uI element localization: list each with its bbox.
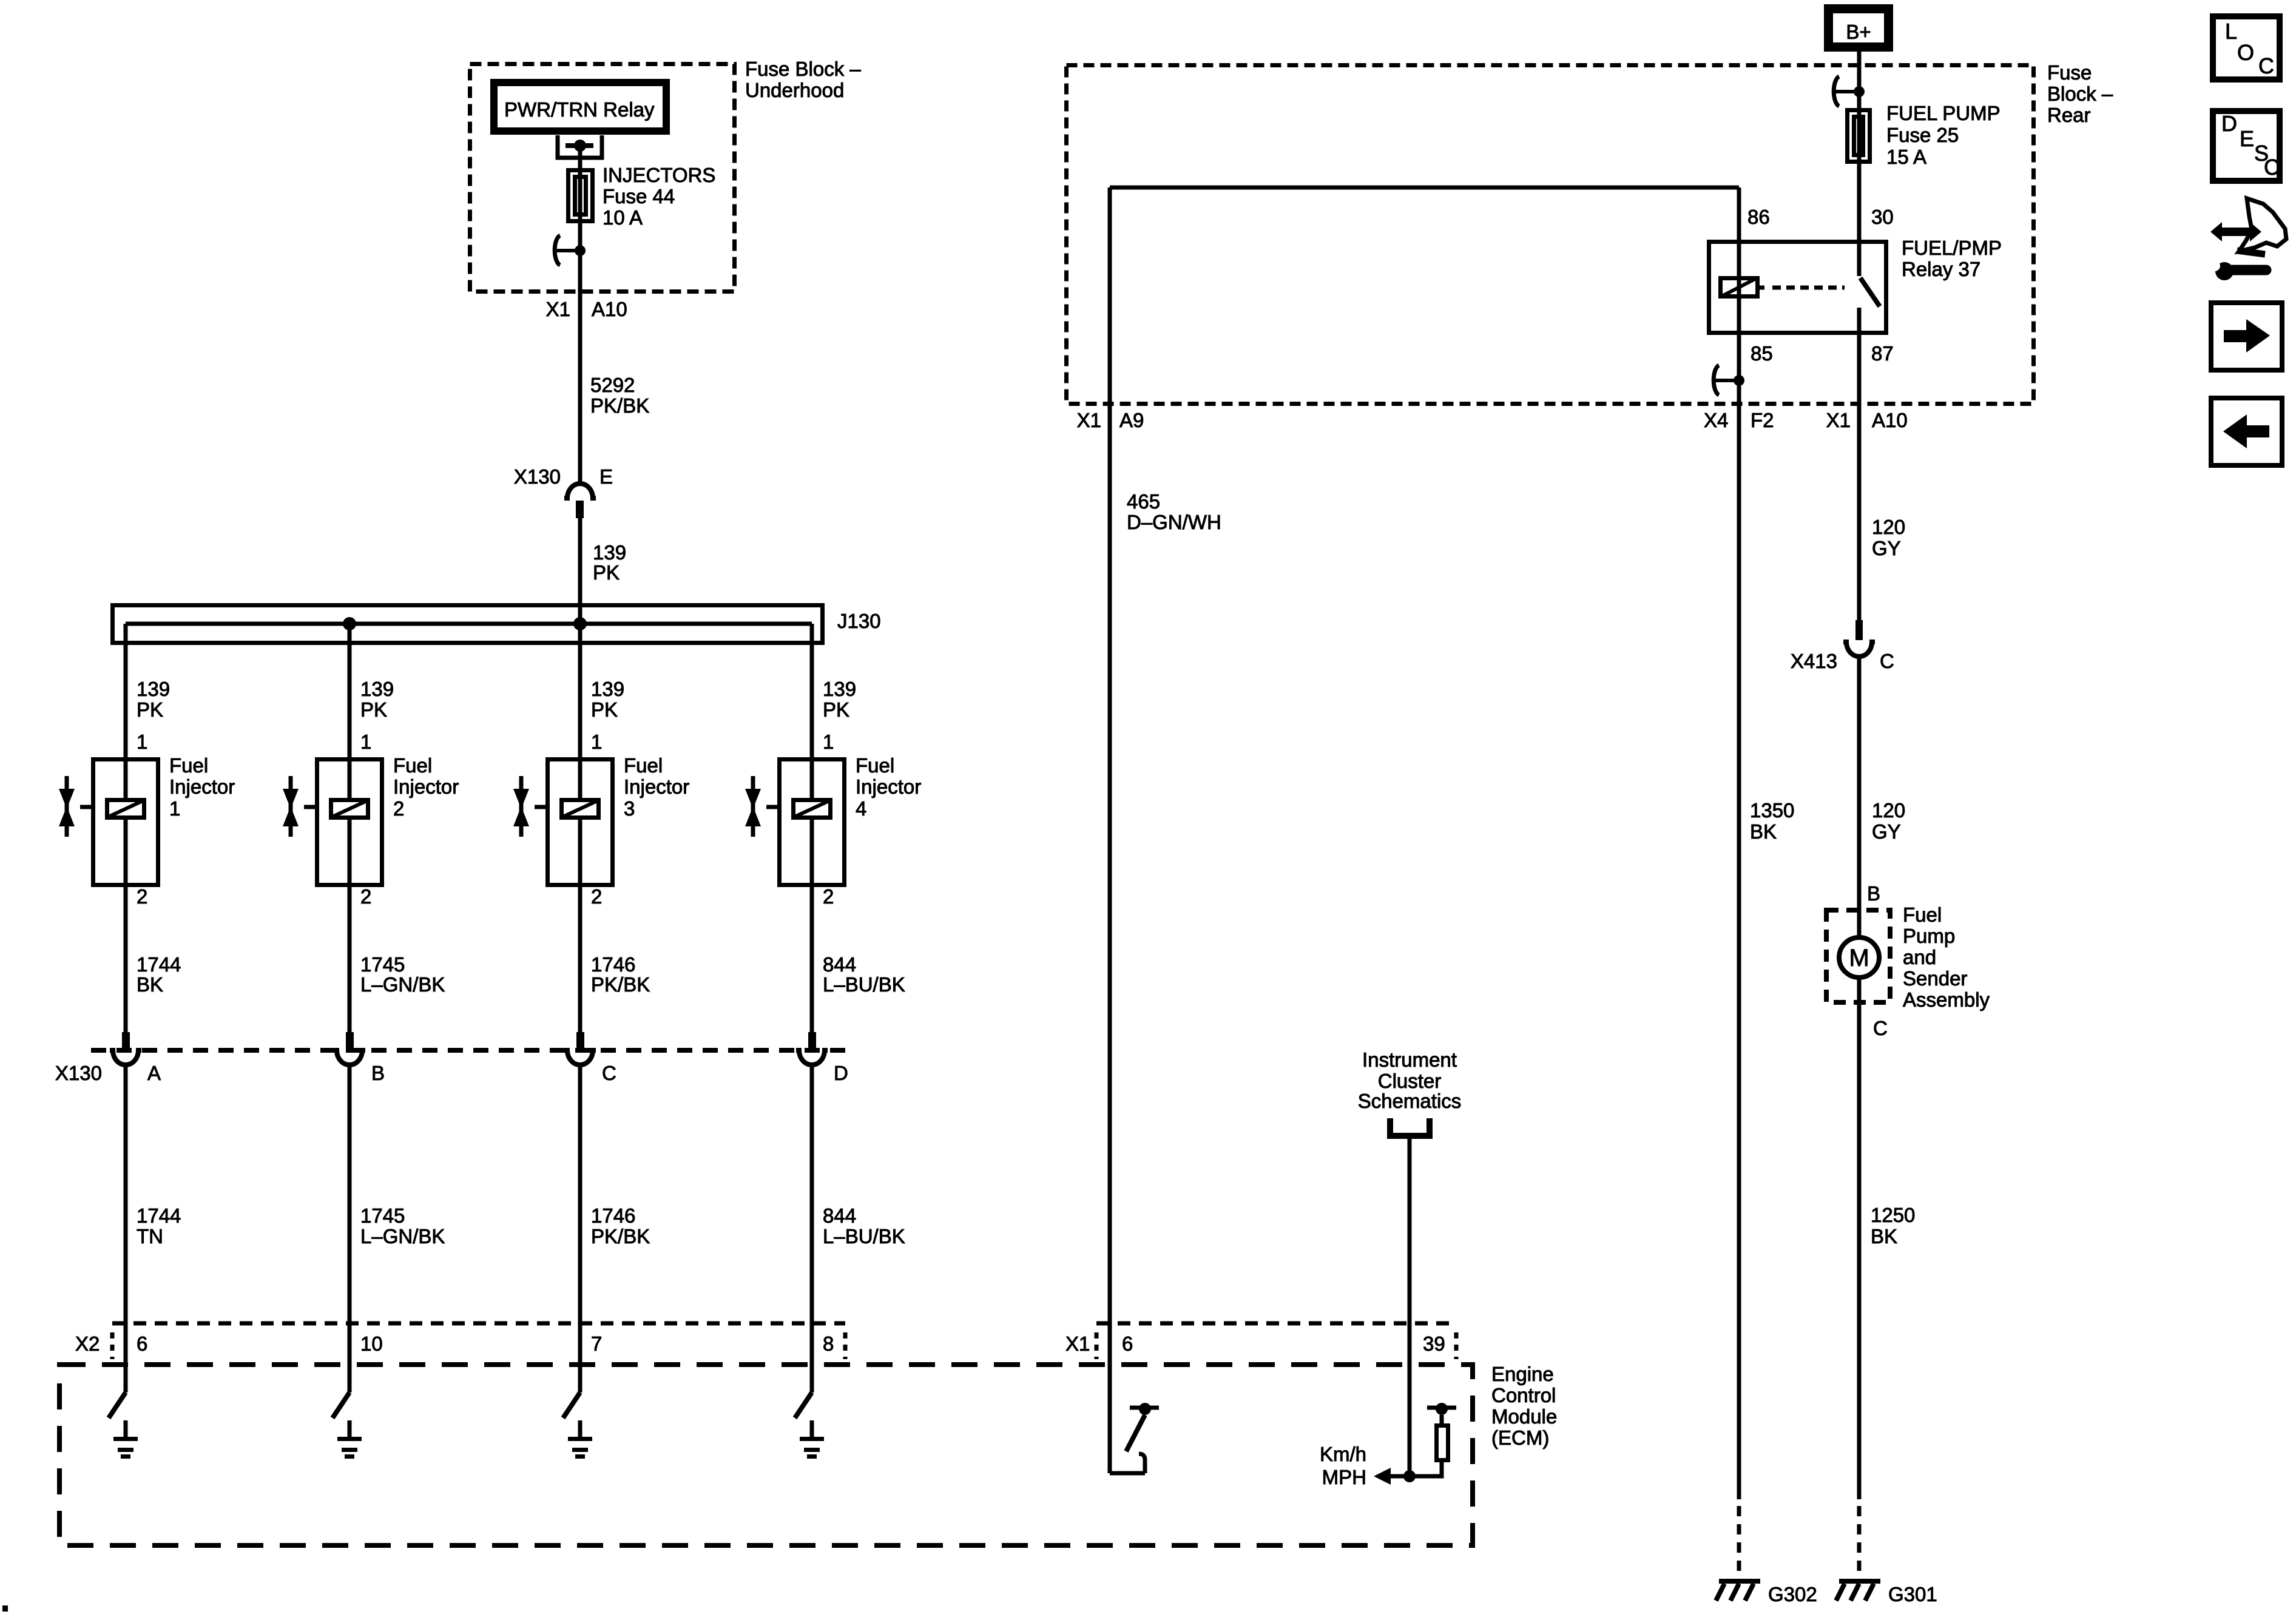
svg-text:E: E <box>2240 126 2254 151</box>
svg-text:Injector: Injector <box>624 775 689 798</box>
svg-text:FUEL PUMP: FUEL PUMP <box>1886 102 2001 124</box>
svg-text:Injector: Injector <box>856 775 921 798</box>
svg-text:844: 844 <box>823 953 856 976</box>
svg-text:120: 120 <box>1872 799 1905 822</box>
svg-text:1745: 1745 <box>360 953 405 976</box>
svg-text:Injector: Injector <box>169 775 235 798</box>
svg-text:Instrument: Instrument <box>1362 1048 1457 1071</box>
svg-text:D: D <box>834 1062 848 1084</box>
svg-text:PK: PK <box>360 698 387 721</box>
svg-text:30: 30 <box>1871 206 1894 228</box>
svg-text:Module: Module <box>1491 1405 1557 1428</box>
svg-text:A: A <box>147 1062 161 1084</box>
svg-text:10 A: 10 A <box>603 206 643 229</box>
svg-text:1746: 1746 <box>591 1204 635 1227</box>
svg-text:1744: 1744 <box>137 953 181 976</box>
svg-text:X4: X4 <box>1704 409 1728 431</box>
svg-text:PK: PK <box>593 561 620 584</box>
svg-text:PK: PK <box>591 698 618 721</box>
svg-text:Fuel: Fuel <box>393 754 432 777</box>
svg-text:E: E <box>599 465 613 488</box>
svg-text:(ECM): (ECM) <box>1491 1426 1549 1449</box>
svg-text:Fuel: Fuel <box>856 754 894 777</box>
svg-text:Relay 37: Relay 37 <box>1902 258 1980 280</box>
svg-text:139: 139 <box>360 678 394 700</box>
svg-text:6: 6 <box>1122 1332 1133 1355</box>
svg-text:G302: G302 <box>1768 1583 1817 1605</box>
svg-text:L–GN/BK: L–GN/BK <box>360 1225 445 1247</box>
svg-text:Fuse 25: Fuse 25 <box>1886 124 1959 146</box>
svg-text:Fuel: Fuel <box>1903 903 1942 926</box>
svg-text:2: 2 <box>823 885 834 908</box>
svg-text:87: 87 <box>1871 342 1894 365</box>
svg-text:C: C <box>602 1062 616 1084</box>
svg-text:3: 3 <box>624 797 635 820</box>
svg-text:Fuse 44: Fuse 44 <box>603 185 675 208</box>
svg-text:L: L <box>2225 19 2237 44</box>
svg-text:D: D <box>2221 111 2237 136</box>
svg-text:A10: A10 <box>592 298 627 320</box>
svg-text:844: 844 <box>823 1204 856 1227</box>
svg-text:86: 86 <box>1747 206 1770 228</box>
svg-text:PK/BK: PK/BK <box>591 1225 650 1247</box>
svg-text:BK: BK <box>1750 820 1777 843</box>
svg-text:8: 8 <box>823 1332 834 1355</box>
svg-text:PWR/TRN Relay: PWR/TRN Relay <box>504 98 655 121</box>
svg-text:Cluster: Cluster <box>1378 1070 1442 1092</box>
svg-text:PK/BK: PK/BK <box>591 973 650 996</box>
svg-text:X1: X1 <box>546 298 570 320</box>
svg-text:C: C <box>2258 53 2274 78</box>
svg-text:PK: PK <box>823 698 849 721</box>
svg-text:C: C <box>2264 155 2280 180</box>
svg-text:Underhood: Underhood <box>745 79 844 101</box>
svg-text:2: 2 <box>137 885 147 908</box>
svg-text:FUEL/PMP: FUEL/PMP <box>1902 237 2002 259</box>
svg-text:15 A: 15 A <box>1886 146 1926 168</box>
svg-text:A9: A9 <box>1119 409 1144 431</box>
svg-text:Fuse Block –: Fuse Block – <box>745 58 861 80</box>
svg-text:Pump: Pump <box>1903 925 1955 947</box>
svg-text:1250: 1250 <box>1871 1204 1915 1226</box>
svg-text:B: B <box>371 1062 385 1084</box>
svg-text:X1: X1 <box>1077 409 1101 431</box>
svg-text:4: 4 <box>856 797 866 820</box>
svg-text:1: 1 <box>591 731 602 753</box>
svg-text:1: 1 <box>360 731 371 753</box>
svg-text:BK: BK <box>1871 1225 1897 1247</box>
svg-text:L–BU/BK: L–BU/BK <box>823 1225 905 1247</box>
svg-text:C: C <box>1880 650 1894 672</box>
svg-text:139: 139 <box>137 678 170 700</box>
svg-text:Block –: Block – <box>2047 83 2113 105</box>
svg-text:1744: 1744 <box>137 1204 181 1227</box>
svg-text:Schematics: Schematics <box>1358 1090 1462 1112</box>
svg-text:Fuel: Fuel <box>169 754 208 777</box>
svg-text:465: 465 <box>1127 490 1160 513</box>
svg-text:2: 2 <box>591 885 602 908</box>
svg-text:2: 2 <box>360 885 371 908</box>
svg-text:F2: F2 <box>1751 409 1774 431</box>
svg-text:139: 139 <box>593 541 626 564</box>
svg-text:X2: X2 <box>75 1332 100 1355</box>
svg-text:2: 2 <box>393 797 404 820</box>
svg-text:C: C <box>1873 1017 1888 1039</box>
svg-text:6: 6 <box>137 1332 147 1355</box>
svg-text:GY: GY <box>1872 820 1901 843</box>
svg-text:Engine: Engine <box>1491 1363 1554 1385</box>
svg-text:B+: B+ <box>1846 21 1871 43</box>
svg-text:1: 1 <box>169 797 180 820</box>
svg-text:TN: TN <box>137 1225 163 1247</box>
svg-text:Assembly: Assembly <box>1903 988 1990 1011</box>
svg-text:10: 10 <box>360 1332 383 1355</box>
svg-text:Rear: Rear <box>2047 104 2091 126</box>
svg-text:O: O <box>2237 40 2254 65</box>
svg-text:X413: X413 <box>1791 650 1837 672</box>
svg-text:Sender: Sender <box>1903 967 1967 990</box>
svg-text:D–GN/WH: D–GN/WH <box>1127 511 1221 533</box>
svg-text:139: 139 <box>823 678 856 700</box>
svg-text:120: 120 <box>1872 516 1905 538</box>
svg-text:MPH: MPH <box>1322 1466 1366 1488</box>
svg-text:Fuse: Fuse <box>2047 61 2092 84</box>
svg-text:G301: G301 <box>1888 1583 1937 1605</box>
svg-text:BK: BK <box>137 973 163 996</box>
svg-text:PK/BK: PK/BK <box>590 394 649 417</box>
svg-text:X1: X1 <box>1826 409 1851 431</box>
svg-text:INJECTORS: INJECTORS <box>603 164 715 186</box>
svg-text:139: 139 <box>591 678 624 700</box>
svg-text:1: 1 <box>823 731 834 753</box>
svg-text:L–BU/BK: L–BU/BK <box>823 973 905 996</box>
svg-text:X130: X130 <box>55 1062 102 1084</box>
svg-text:85: 85 <box>1751 342 1773 365</box>
svg-text:L–GN/BK: L–GN/BK <box>360 973 445 996</box>
svg-text:7: 7 <box>591 1332 602 1355</box>
svg-text:1745: 1745 <box>360 1204 405 1227</box>
svg-text:Km/h: Km/h <box>1320 1443 1366 1465</box>
svg-text:PK: PK <box>137 698 163 721</box>
svg-text:A10: A10 <box>1872 409 1908 431</box>
svg-text:X130: X130 <box>514 465 561 488</box>
svg-text:X1: X1 <box>1065 1332 1090 1355</box>
svg-text:GY: GY <box>1872 537 1901 559</box>
svg-text:Injector: Injector <box>393 775 459 798</box>
svg-text:and: and <box>1903 946 1936 968</box>
svg-text:5292: 5292 <box>590 374 635 396</box>
svg-text:39: 39 <box>1423 1332 1445 1355</box>
svg-text:B: B <box>1867 882 1880 905</box>
svg-text:1350: 1350 <box>1750 799 1794 822</box>
svg-text:Fuel: Fuel <box>624 754 663 777</box>
svg-text:J130: J130 <box>837 610 881 632</box>
svg-text:M: M <box>1849 945 1869 971</box>
svg-text:1: 1 <box>137 731 147 753</box>
svg-text:Control: Control <box>1491 1384 1556 1406</box>
svg-text:1746: 1746 <box>591 953 635 976</box>
